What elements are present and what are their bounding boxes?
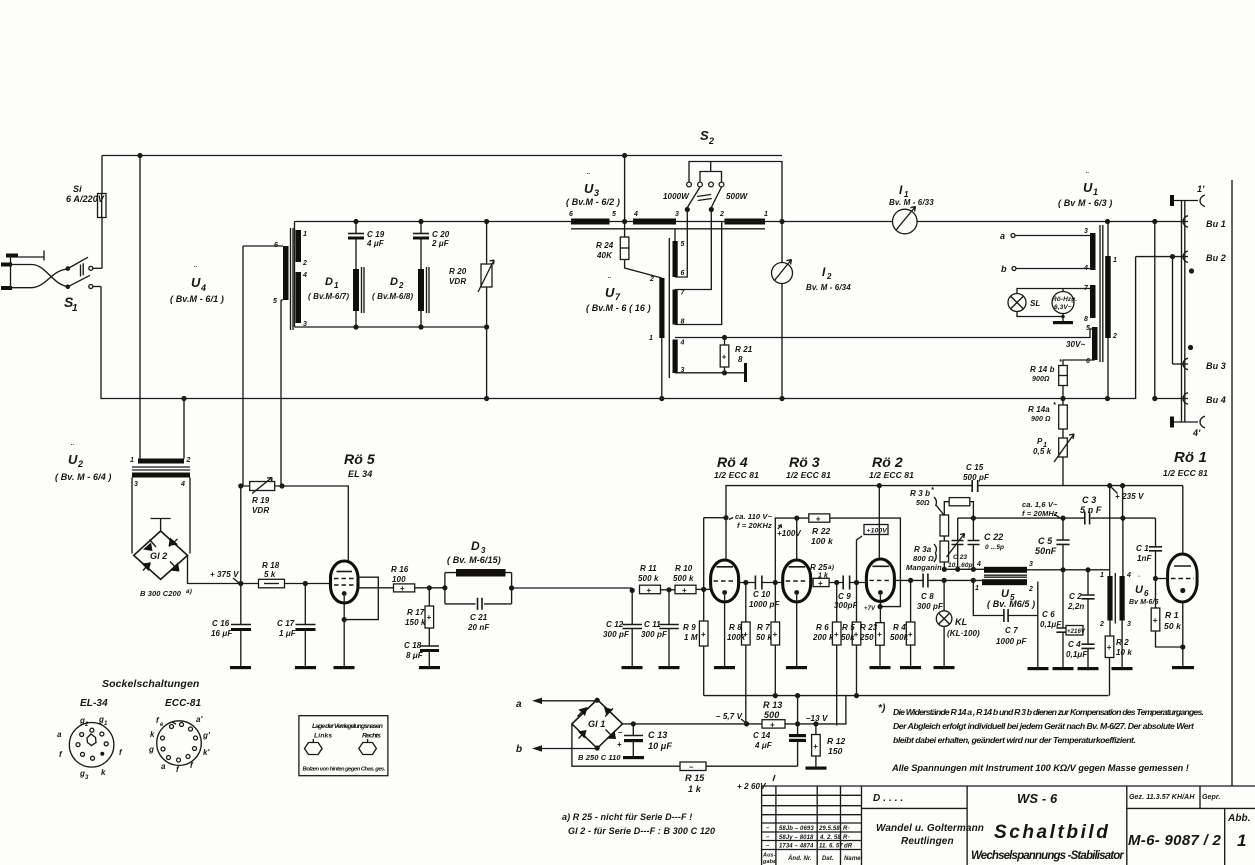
svg-text:Bu 1: Bu 1 [1206,219,1226,229]
svg-text:g': g' [202,731,211,740]
svg-text:R 6: R 6 [816,623,829,632]
ground (heater) [1053,315,1073,325]
meter I2 [772,219,852,401]
svg-text:k': k' [203,748,211,757]
terminal arrow a [516,698,597,710]
svg-text:KL: KL [955,617,967,627]
svg-text:300 pF: 300 pF [917,602,944,611]
svg-text:800 Ω: 800 Ω [913,554,934,563]
svg-text:C 9: C 9 [838,592,851,601]
svg-text:3: 3 [134,481,138,488]
ground (Ro5 cathode) [334,666,355,669]
resistor R7 [756,583,780,699]
svg-text:D: D [325,276,333,288]
svg-text:Die Widerstände R 14 a , R 14: Die Widerstände R 14 a , R 14 b und R 3 … [893,707,1204,717]
capacitor C18 [404,641,439,666]
svg-text:3: 3 [481,546,486,555]
svg-text:500k: 500k [890,633,909,642]
svg-text:1: 1 [130,457,134,464]
svg-text:29.5.58: 29.5.58 [818,826,840,832]
resistor R22 [794,514,834,546]
svg-text:Gl 2 - für Serie D---F : B 300: Gl 2 - für Serie D---F : B 300 C 120 [568,826,715,836]
svg-text:b: b [516,744,522,755]
svg-text:+: + [834,630,839,639]
svg-text:Rö 4: Rö 4 [717,454,748,470]
svg-text:1 M: 1 M [684,633,698,642]
svg-text:R 12: R 12 [827,736,846,746]
svg-text:g: g [148,745,154,754]
capacitor C13 [617,724,672,756]
svg-text:–: – [766,843,770,849]
svg-text:R 3a: R 3a [914,545,932,554]
svg-text:a: a [161,762,166,771]
svg-text:1: 1 [975,585,979,592]
svg-text:1/2 ECC 81: 1/2 ECC 81 [714,470,759,480]
svg-text:R 5: R 5 [842,623,855,632]
svg-text:900Ω: 900Ω [1032,376,1050,383]
svg-text:6: 6 [274,242,278,249]
ground (C7 loop) [1028,667,1049,670]
potentiometer P1 [1033,434,1074,486]
resistor R16 [391,565,445,593]
resistor R5 [841,583,861,699]
svg-text:C 4: C 4 [1068,640,1081,649]
transformer U3 winding bars [569,211,1108,229]
capacitor C5 [1035,518,1070,570]
svg-text:500 k: 500 k [638,574,659,583]
resistor R21 [720,338,753,373]
svg-text:EL 34: EL 34 [348,469,372,479]
svg-text:¨: ¨ [194,265,197,274]
svg-text:Abb.: Abb. [1227,813,1251,824]
svg-text:–: – [766,826,770,832]
svg-text:S: S [700,128,709,143]
capacitor C9 [829,576,866,611]
svg-text:1: 1 [104,721,108,727]
svg-text:50 k: 50 k [1164,621,1182,631]
svg-text:U: U [584,181,594,196]
box Verriegelungsnasen [299,716,388,776]
svg-text:+100V: +100V [777,529,801,538]
svg-text:a: a [57,730,62,739]
node: bottom bus / U2 feed [181,396,186,401]
ground (R23) [870,666,891,669]
svg-text:1734 – 4874: 1734 – 4874 [779,844,814,850]
svg-text:C 16: C 16 [212,619,230,628]
svg-text:2: 2 [1112,333,1117,340]
svg-text:4 μF: 4 μF [366,239,385,248]
node: spare socket dots [1189,268,1194,273]
svg-text:2 μF: 2 μF [431,239,450,248]
ground (R4) [900,666,921,669]
svg-text:ECC-81: ECC-81 [165,698,202,709]
wire: U6 pin3 to ground [1121,621,1123,668]
svg-text:5: 5 [273,298,277,305]
svg-text:2: 2 [649,276,654,283]
svg-text:(KL·100): (KL·100) [947,629,980,638]
resistor R24 [596,237,662,278]
svg-text:+: + [647,586,652,595]
svg-text:R 2: R 2 [1116,638,1129,647]
svg-text:4 μF: 4 μF [754,741,773,750]
transformer U7 secondary 4-3 [673,340,685,375]
svg-text:+7V: +7V [864,606,876,612]
svg-text:3: 3 [1084,228,1088,235]
svg-text:5: 5 [612,211,616,218]
svg-text:+: + [813,742,818,751]
svg-text:( Bv.M-6/8): ( Bv.M-6/8) [372,292,413,301]
svg-text:a: a [1000,231,1005,241]
transformer U1 label [1058,171,1112,208]
svg-text:B 300 C200: B 300 C200 [140,589,182,598]
switch S1 [64,257,102,314]
svg-text:100k: 100k [727,633,746,642]
ground (U6 pin3) [1112,667,1133,670]
svg-text:ca. 1,6 V~: ca. 1,6 V~ [1022,500,1058,509]
svg-text:1: 1 [72,303,78,314]
svg-text:*: * [1053,402,1056,409]
switch S2 [663,128,782,222]
ground (C11) [659,666,680,669]
choke D2 [372,219,450,330]
svg-text:1nF: 1nF [1137,554,1153,563]
svg-text:R 25: R 25 [810,563,828,572]
node: R21 top [722,335,727,340]
svg-text:7: 7 [615,292,621,302]
tube Ro4 label [714,454,759,480]
svg-text:a: a [516,699,522,710]
ground (R12) [806,767,827,770]
svg-text:2: 2 [302,260,307,267]
transformer U7 label [586,276,651,313]
svg-text:WS - 6: WS - 6 [1017,791,1058,806]
svg-text:1: 1 [334,281,339,290]
tube Ro5 [331,561,394,666]
node: top bus / S2 feed [622,153,627,158]
resistor R13 [762,700,785,729]
svg-text:R 10: R 10 [675,564,693,573]
svg-text:R 8: R 8 [729,623,742,632]
transformer U1 core [1100,225,1103,362]
transformer U6 [1099,572,1159,628]
svg-text:R 11: R 11 [640,564,657,573]
tube Ro2 label [869,454,914,480]
svg-text:+: + [908,630,913,639]
tube Ro5 label [344,451,375,479]
svg-text:Gepr.: Gepr. [1202,794,1220,801]
transformer U2 windings [130,457,191,488]
svg-text:R 4: R 4 [893,623,906,632]
svg-text:4': 4' [1192,428,1201,438]
capacitor C23 variable [947,518,974,569]
svg-text:C 1: C 1 [1136,544,1149,553]
svg-text:2: 2 [186,457,191,464]
resistor R14a [1028,402,1067,438]
resistor R11 [638,564,661,595]
svg-text:Wechselspannungs -Stabilisator: Wechselspannungs -Stabilisator [971,850,1124,862]
svg-text:100: 100 [392,575,406,584]
svg-text:3: 3 [85,775,89,781]
wire: bias -5.7V line [623,696,846,727]
svg-text:C 18: C 18 [404,641,422,650]
svg-text:R 16: R 16 [391,565,409,574]
svg-text:Links: Links [314,733,332,740]
svg-text:500 pF: 500 pF [963,473,990,482]
svg-text:k: k [101,768,106,777]
node: U3 tap / R24 [622,219,627,224]
wire: top bus to R24 tap [624,156,626,238]
svg-text:D: D [471,539,480,553]
tube Ro3 label [786,454,831,480]
note asterisk text [878,703,1204,745]
socket Bu3 [1173,358,1226,371]
node: anode 110V annotation [704,512,773,530]
svg-text:( Bv. M - 6/4 ): ( Bv. M - 6/4 ) [55,472,112,482]
ground (Ro1 cathode) [1172,666,1194,669]
capacitor C8 [894,574,982,612]
wire: U7 pin3 to ground [675,372,744,374]
tube Ro1 [1156,486,1198,666]
svg-text:a': a' [196,715,204,724]
capacitor C11 [641,587,679,666]
svg-text:U: U [68,452,78,467]
capacitor C6 [1040,570,1070,667]
varistor R19 [238,478,348,562]
wire: R22 feedback line [775,518,900,607]
svg-text:( Bv.M - 6/1 ): ( Bv.M - 6/1 ) [170,294,224,304]
transformer U1 secondary 1-2 [1105,219,1117,401]
svg-text:R⋅: R⋅ [843,835,850,841]
svg-text:50nF: 50nF [1035,546,1057,556]
svg-text:6: 6 [1144,589,1149,598]
svg-text:a): a) [828,564,834,571]
resistor R23 [859,623,884,666]
svg-text:U: U [191,275,201,290]
svg-text:3: 3 [675,211,679,218]
svg-text:Änd. Nr.: Änd. Nr. [787,855,812,862]
svg-text:Bv M-6/6: Bv M-6/6 [1129,599,1159,606]
svg-text:Gez. 11.3.57 KH/AH: Gez. 11.3.57 KH/AH [1129,794,1195,801]
capacitor C10 [739,576,784,610]
fuse Si [66,156,106,269]
node: top bus / U4 feed [137,153,142,158]
resistor R2 [1105,621,1132,696]
svg-text:1000W: 1000W [663,192,690,201]
svg-text:–13 V: –13 V [806,714,828,723]
ground (Ro3 cathode) [786,666,807,669]
svg-text:C 22: C 22 [984,532,1003,542]
resistor R15 [572,724,798,794]
svg-text:C 6: C 6 [1042,610,1055,619]
svg-text:8: 8 [1084,316,1088,323]
svg-text:Bolzen von hinten gegen Chas.: Bolzen von hinten gegen Chas. ges. [303,767,386,773]
svg-text:( Bv M - 6/3 ): ( Bv M - 6/3 ) [1058,198,1112,208]
annotation +216V boxed [1066,626,1086,636]
varistor R20 [449,219,494,401]
svg-text:¨: ¨ [587,172,590,181]
svg-text:Bu 3: Bu 3 [1206,361,1226,371]
svg-text:C 3: C 3 [1082,495,1096,505]
svg-text:R 17: R 17 [407,608,425,617]
svg-text:+: + [682,586,687,595]
wire: U5 lower node line [942,567,984,572]
svg-text:Rö 1: Rö 1 [1174,449,1207,466]
svg-text:2: 2 [719,211,724,218]
svg-text:( Bv. M6/5 ): ( Bv. M6/5 ) [987,599,1035,609]
svg-text:1: 1 [649,335,653,342]
socket Bu1 [1152,216,1226,229]
svg-text:R 9: R 9 [683,623,696,632]
transformer U3 label [566,172,620,207]
svg-text:R 22: R 22 [812,526,831,536]
svg-text:( Bv. M-6/15): ( Bv. M-6/15) [447,555,501,565]
svg-text:+: + [770,720,775,729]
wire: S1 lower to bottom bus [101,257,1136,399]
svg-text:1: 1 [1093,187,1098,197]
annotation ca 1,6V [1022,500,1060,518]
socket ECC-81 [148,698,211,774]
svg-text:C 21: C 21 [470,613,488,622]
svg-text:+: + [1107,643,1112,652]
svg-text:2,2n: 2,2n [1067,602,1084,611]
svg-text:2: 2 [1028,586,1033,593]
ground (C18) [419,666,440,669]
transformer U7 secondary 5-6 [673,210,688,278]
svg-text:¨: ¨ [71,443,74,452]
svg-text:4: 4 [976,561,981,568]
svg-text:Rö-Hzg.: Rö-Hzg. [1052,296,1077,303]
resistor R17 [405,588,434,646]
svg-text:900 Ω: 900 Ω [1031,416,1051,423]
resistor R14b [1030,359,1067,405]
svg-text:58Jy – 8018: 58Jy – 8018 [779,835,814,841]
capacitor C2 [1067,570,1095,667]
svg-text:50 k: 50 k [756,633,772,642]
resistor R10 [673,564,712,595]
svg-text:8: 8 [738,355,743,364]
svg-text:6,3V~: 6,3V~ [1054,304,1072,311]
svg-text:6: 6 [569,211,573,218]
svg-text:R 13: R 13 [763,700,782,710]
svg-text:C 2: C 2 [1069,592,1082,601]
svg-text:+: + [427,613,432,622]
svg-text:4: 4 [680,340,685,347]
resistor R9 [683,518,708,696]
svg-text:Manganin: Manganin [906,563,942,572]
svg-text:Bu 2: Bu 2 [1206,253,1226,263]
lamp SL [1008,289,1090,317]
svg-text:R⋅: R⋅ [843,826,850,832]
svg-text:+: + [1153,616,1158,625]
svg-text:+ 235 V: + 235 V [1115,492,1144,501]
svg-text:300pF: 300pF [834,601,859,610]
svg-text:Der Abgleich erfolgt individue: Der Abgleich erfolgt individuell bei jed… [893,721,1195,731]
svg-text:2: 2 [708,136,714,146]
svg-text:4: 4 [302,272,307,279]
resistor R6 [812,583,841,726]
svg-text:1 μF: 1 μF [279,629,297,638]
transformer U1 winding 7-8 [1084,285,1096,323]
svg-text:2: 2 [84,722,89,728]
svg-text:R 20: R 20 [449,267,467,276]
svg-text:Sockelschaltungen: Sockelschaltungen [102,678,199,690]
svg-text:0,1μF: 0,1μF [1040,620,1062,629]
socket EL-34 [57,698,123,781]
svg-text:50k: 50k [841,633,855,642]
wire: U6 pin4 drop [1122,518,1124,576]
svg-text:b: b [1001,264,1007,274]
svg-text:6 A/220V: 6 A/220V [66,194,105,204]
svg-text:1: 1 [1237,831,1247,850]
terminal arrow b [516,744,597,755]
svg-text:+: + [818,579,823,588]
svg-text:R 15: R 15 [685,773,705,783]
svg-text:C 15: C 15 [966,463,984,472]
svg-text:+: + [816,515,821,524]
svg-text:8 μF: 8 μF [406,651,424,660]
capacitor C15 [963,463,990,492]
ground (C6) [1053,667,1074,670]
transformer U1 winding 5-6 30V [1063,325,1098,366]
tube Ro1 label [1163,449,1208,478]
svg-text:150 k: 150 k [405,618,426,627]
svg-text:40K: 40K [596,251,613,260]
svg-text:3: 3 [1127,621,1131,628]
svg-text:Alle Spannungen mit Instrum: Alle Spannungen mit Instrument 100 KΩ/V … [891,763,1189,773]
ground (U7 pin3) [744,363,747,382]
svg-text:R 14a: R 14a [1028,405,1050,414]
svg-text:Gl 2: Gl 2 [150,551,167,561]
svg-text:1': 1' [1197,184,1205,194]
svg-text:4: 4 [180,481,185,488]
wire: negative rail [704,695,1109,697]
svg-text:+: + [701,630,706,639]
svg-text:Rö 5: Rö 5 [344,451,375,467]
svg-text:B 250 C 110: B 250 C 110 [578,753,621,762]
svg-text:R 24: R 24 [596,241,614,250]
svg-text:500: 500 [764,710,779,720]
svg-text:Dat.: Dat. [822,856,834,862]
svg-text:U: U [1135,584,1144,596]
svg-text:M-6- 9087 / 2: M-6- 9087 / 2 [1128,832,1222,849]
svg-text:C 8: C 8 [921,592,934,601]
svg-text:C 17: C 17 [277,619,295,628]
svg-text:Si: Si [73,184,82,194]
capacitor C22 [968,518,1005,569]
svg-text:200 k: 200 k [812,633,834,642]
svg-text:*: * [931,487,934,494]
transformer U5 [975,561,1110,609]
svg-text:2: 2 [826,272,832,281]
cable shield lines [1182,201,1185,423]
svg-text:1/2 ECC 81: 1/2 ECC 81 [869,470,914,480]
svg-text:1/2 ECC 81: 1/2 ECC 81 [786,470,831,480]
svg-text:+: + [400,584,405,593]
wire: D1/D2 box frame [295,222,572,328]
svg-text:300 pF: 300 pF [641,630,668,639]
svg-text:R 1: R 1 [1165,610,1179,620]
svg-text:–: – [618,728,623,737]
svg-text:R 23: R 23 [860,623,878,632]
transformer U7 core [668,238,670,378]
svg-text:( Bv.M - 6 ( 16 ): ( Bv.M - 6 ( 16 ) [586,303,651,313]
svg-text:*): *) [878,703,886,714]
transformer U7 secondary 7-8 [673,210,722,326]
svg-text:Lage der Verriegelungsnasen: Lage der Verriegelungsnasen [312,723,383,730]
ground (C12) [622,666,643,669]
svg-text:1 k: 1 k [818,573,829,580]
rectifier Gl2 [132,478,192,599]
